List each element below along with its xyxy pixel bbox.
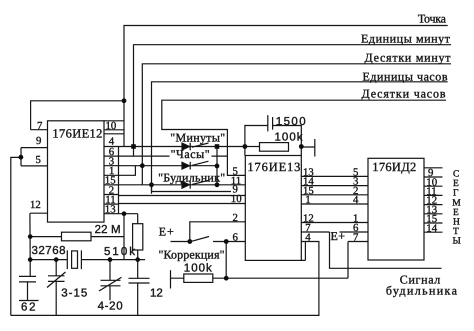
svg-text:176ИД2: 176ИД2 (372, 160, 416, 174)
svg-text:14: 14 (426, 222, 437, 234)
svg-text:10: 10 (106, 120, 117, 132)
svg-text:Т: Т (453, 227, 459, 237)
wires U2 to U3 rows 12-1, 7-6 (301, 223, 368, 233)
node dot RC right (299, 144, 304, 149)
pin 7 wire U1 (31, 129, 48, 131)
svg-text:4: 4 (353, 194, 359, 206)
svg-text:Е+: Е+ (331, 229, 346, 243)
wire pin6 U1 (119, 155, 228, 157)
wire chip notch (301, 242, 305, 261)
wire pin12 U1 down (29, 213, 31, 259)
svg-text:6: 6 (233, 232, 239, 244)
U3 right pin stubs 9,10,11,12,13,15,14 (424, 168, 443, 232)
wire RC net U2 (245, 126, 268, 147)
wire pin15 U1 / alarm set net to U2 pin11 (119, 184, 230, 186)
node dot sw4 left (187, 239, 192, 244)
trimmer C2 3-15 (47, 272, 66, 288)
svg-text:Десятки часов: Десятки часов (362, 86, 446, 100)
svg-text:Н: Н (453, 218, 460, 228)
wire pin1 U1 (119, 166, 136, 176)
resistor R4 100k корр (184, 274, 213, 282)
node dot crystal c3 (108, 257, 113, 262)
wire bus4 drop to U2 pin9 (151, 185, 153, 192)
node dot pin5 (19, 155, 24, 160)
diode VD2 (182, 162, 190, 170)
wire pin7 loop to Точка net (31, 101, 124, 130)
capacitor C4 12 (129, 278, 150, 283)
svg-text:510k: 510k (104, 246, 135, 258)
svg-text:13: 13 (105, 204, 116, 216)
svg-text:22 М: 22 М (95, 224, 121, 236)
wire corr junction down (225, 242, 227, 279)
node dot 510k (135, 257, 140, 262)
svg-text:7: 7 (37, 120, 43, 132)
svg-text:100k: 100k (184, 262, 212, 274)
switch S1 Минуты (192, 143, 209, 147)
label СЕГМЕНТЫ vertical (452, 169, 461, 246)
bus Единицы часов (152, 82, 448, 194)
svg-text:Е: Е (453, 208, 459, 218)
svg-text:Точка: Точка (418, 11, 447, 25)
crystal ZQ1 32768 (67, 250, 81, 269)
wire switch common (216, 147, 218, 185)
U2 left pin stubs (230, 185, 246, 204)
svg-text:7: 7 (353, 232, 359, 244)
svg-text:32768: 32768 (32, 245, 66, 257)
svg-text:4-20: 4-20 (98, 301, 123, 313)
svg-text:176ИЕ13: 176ИЕ13 (247, 160, 300, 174)
node dot hours (140, 163, 145, 168)
wire pin11 U1 to U2 pin10 (119, 203, 230, 205)
wire U3 pin7 E+ feed (348, 242, 368, 279)
bus Десятки минут (142, 64, 451, 185)
bottom rail (11, 241, 319, 315)
node dot sw2 out (215, 164, 220, 169)
resistor R3 100k (260, 143, 289, 152)
svg-text:М: М (452, 198, 461, 208)
capacitor C1 62 (19, 276, 36, 282)
svg-text:3-15: 3-15 (61, 288, 87, 300)
svg-text:12: 12 (30, 199, 41, 211)
terminal bar corr (170, 270, 172, 288)
node A dot (122, 98, 127, 103)
svg-text:"Часы": "Часы" (171, 147, 210, 161)
node dot corr (224, 276, 229, 281)
svg-text:"Будильник": "Будильник" (158, 171, 225, 185)
wire pin13 vertical (123, 214, 125, 260)
svg-text:5: 5 (36, 154, 41, 166)
IC U2 176ИЕ13 body (245, 156, 301, 261)
wires U2 to U3 rows 13-5,14-3,15-2,1-4 (301, 176, 368, 204)
svg-text:10: 10 (231, 193, 242, 205)
node dot osc pin12 (28, 234, 33, 239)
svg-text:Единицы часов: Единицы часов (363, 69, 448, 83)
svg-text:176ИЕ12: 176ИЕ12 (52, 127, 102, 141)
node dot sw1 out (215, 144, 220, 149)
IC U1 176ИЕ12 body (48, 121, 105, 222)
right pin cells U1 (10,4,6,3,1,15,2,11,13) (104, 121, 124, 214)
wire pin4 U1 / minutes set net (119, 146, 245, 148)
svg-text:Е+: Е+ (159, 225, 174, 239)
resistor R1 22M (62, 232, 92, 241)
wire E+ to U2 pin2 (190, 222, 246, 242)
wire alarm signal out (330, 232, 442, 268)
node dot RC left (243, 144, 248, 149)
switch S4 Коррекция E+ (171, 237, 246, 242)
IC U3 176ИД2 body (368, 158, 424, 260)
wire pin13 U1 to oscillator (119, 213, 138, 215)
wire U2 pin4 row to bottom rail (301, 241, 319, 243)
svg-text:Г: Г (453, 189, 459, 199)
wire pin5 to left rail (11, 157, 21, 315)
wire crystal net (30, 259, 67, 261)
trimmer C3 4-20 (99, 277, 122, 291)
wire pin3 U1 / hours set net (119, 165, 218, 167)
node dot alarm (149, 182, 154, 187)
switch S2 Часы (192, 161, 209, 165)
svg-text:4: 4 (305, 232, 311, 244)
capacitor C5 1500 (268, 115, 273, 131)
pin 12 wire U1 (30, 212, 47, 214)
svg-text:"Минуты": "Минуты" (170, 131, 225, 145)
bus Десятки часов (162, 100, 446, 175)
pin 5 wire U1 (21, 148, 48, 166)
wire pin2 U1 to U2 pin9 (119, 195, 246, 197)
wire bus4 corner to U2 pin9 (152, 191, 232, 193)
svg-text:Ы: Ы (453, 237, 461, 247)
svg-text:Десятки минут: Десятки минут (365, 51, 452, 65)
node dot sw3 out (215, 182, 220, 187)
svg-text:будильника: будильника (386, 284, 458, 298)
svg-text:2: 2 (233, 212, 238, 224)
switch S3 Будильник (192, 180, 209, 184)
svg-text:1500: 1500 (276, 116, 306, 128)
svg-text:Единицы минут: Единицы минут (361, 31, 451, 45)
node dot crystal c2 (54, 257, 59, 262)
svg-text:С: С (453, 169, 459, 179)
bus Точка (124, 26, 448, 147)
node dot sw4 right (224, 239, 229, 244)
bus Единицы минут (134, 45, 452, 156)
svg-text:100k: 100k (275, 131, 303, 143)
node dot minutes (131, 144, 136, 149)
diode VD3 (182, 181, 190, 189)
svg-text:12: 12 (150, 288, 163, 300)
node dot crystal left (28, 257, 33, 262)
node dot pin13 (122, 211, 127, 216)
svg-text:Е: Е (453, 179, 459, 189)
resistor R2 510k (133, 224, 143, 250)
svg-text:62: 62 (21, 301, 36, 313)
svg-text:"Коррекция": "Коррекция" (159, 248, 225, 262)
diode VD1 (182, 143, 190, 151)
svg-text:1: 1 (305, 194, 310, 206)
terminal bar (301, 139, 315, 157)
pin 9 wire U1 (21, 147, 48, 149)
svg-text:9: 9 (36, 135, 41, 147)
